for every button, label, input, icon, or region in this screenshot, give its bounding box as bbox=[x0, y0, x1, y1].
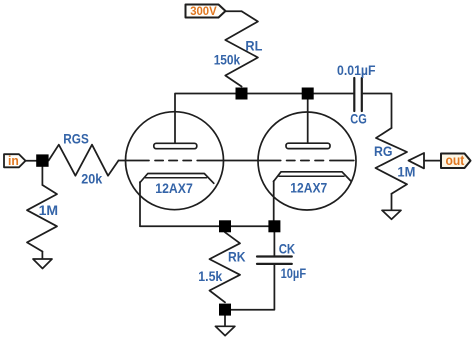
wire CK top lead bbox=[273, 226, 275, 256]
wire J6 stub to ground bbox=[224, 316, 226, 327]
wire 1M to ground bbox=[41, 252, 43, 260]
svg-text:1M: 1M bbox=[397, 164, 415, 179]
resistor RL bbox=[225, 11, 258, 86]
svg-text:out: out bbox=[446, 153, 465, 168]
svg-text:12AX7: 12AX7 bbox=[290, 180, 327, 195]
cathode lead V1 down to bus bbox=[139, 182, 141, 226]
svg-text:20k: 20k bbox=[81, 172, 102, 187]
svg-text:1M: 1M bbox=[39, 203, 59, 218]
grid dashed line V1 with solid link to V2 grid bbox=[119, 160, 281, 162]
resistor R1M input bbox=[27, 185, 57, 252]
tube V1 envelope bbox=[126, 112, 224, 210]
anode plate bar V1 bbox=[154, 143, 197, 148]
svg-text:150k: 150k bbox=[214, 52, 241, 67]
svg-text:RK: RK bbox=[228, 250, 246, 265]
junction J6 RK CK ground bbox=[219, 304, 231, 316]
grid dashed line V2 bbox=[287, 160, 354, 162]
junction J2 anode V2 bbox=[302, 88, 314, 100]
wire 300V tag to RL bbox=[226, 10, 242, 12]
cathode V1 bbox=[140, 174, 214, 184]
svg-text:12AX7: 12AX7 bbox=[155, 181, 193, 196]
svg-text:1.5k: 1.5k bbox=[198, 269, 222, 284]
anode plate bar V2 bbox=[286, 143, 330, 148]
svg-text:in: in bbox=[8, 153, 19, 168]
resistor RGS bbox=[49, 145, 119, 176]
junction J1 anode RL bbox=[236, 88, 248, 100]
wire J2 to tube2 plate lead bbox=[307, 94, 309, 144]
wire RG to ground bbox=[391, 194, 393, 211]
resistor RK bbox=[210, 232, 241, 302]
wire CK bottom to J6 bbox=[231, 264, 274, 310]
wiper arrow out bbox=[409, 153, 425, 168]
svg-text:10µF: 10µF bbox=[281, 266, 307, 281]
capacitor CK plates bbox=[257, 255, 292, 257]
svg-text:RG: RG bbox=[374, 144, 393, 159]
cathode V2 bbox=[274, 172, 352, 182]
svg-text:RGS: RGS bbox=[63, 132, 89, 147]
junction J5 cathode CK bbox=[268, 220, 280, 232]
ground symbol bottom bbox=[215, 326, 235, 335]
cathode lead V2 down to bus bbox=[273, 181, 275, 226]
wire arrow to out tag bbox=[424, 160, 441, 162]
ground symbol RG bbox=[382, 210, 401, 219]
capacitor CG plates bbox=[353, 78, 355, 111]
junction J3 input bbox=[36, 154, 48, 166]
svg-text:CK: CK bbox=[279, 242, 296, 257]
tube V2 envelope bbox=[258, 112, 356, 210]
svg-text:0.01µF: 0.01µF bbox=[337, 63, 376, 78]
svg-text:300V: 300V bbox=[190, 4, 217, 18]
junction J4 cathode RK bbox=[219, 220, 231, 232]
wire in tag to J3 bbox=[26, 160, 37, 162]
input tag in bbox=[4, 154, 26, 167]
ground symbol input bbox=[33, 259, 52, 269]
wire J1 to tube1 plate lead bbox=[175, 94, 242, 144]
wire CG to RG bend bbox=[362, 94, 392, 129]
wire anode bus J1 to J2 to CG bbox=[242, 93, 355, 95]
power tag 300V bbox=[186, 5, 226, 18]
potentiometer RG bbox=[376, 128, 408, 194]
output tag out bbox=[441, 154, 471, 169]
wire cathode bus bbox=[140, 225, 274, 227]
svg-text:RL: RL bbox=[245, 38, 262, 53]
wire J3 down to 1M bbox=[41, 167, 43, 185]
svg-text:CG: CG bbox=[350, 112, 367, 127]
